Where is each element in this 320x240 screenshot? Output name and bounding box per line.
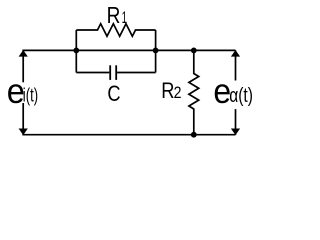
svg-text:i(t): i(t) — [23, 85, 38, 106]
svg-text:C: C — [107, 82, 120, 106]
svg-text:2: 2 — [174, 84, 182, 102]
svg-text:1: 1 — [122, 7, 128, 27]
svg-text:α(t): α(t) — [229, 84, 253, 106]
svg-text:R: R — [161, 79, 174, 103]
svg-text:R: R — [107, 4, 121, 29]
